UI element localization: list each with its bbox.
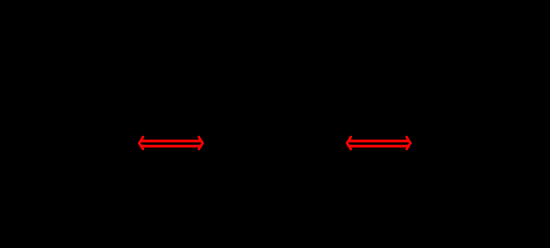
dimension arrow D1 (red double-line double-headed arrow, left) xyxy=(139,137,203,149)
wire (hidden black ink on black background) xyxy=(40,142,510,144)
dimension arrow D2 (red double-line double-headed arrow, right) xyxy=(347,137,411,149)
